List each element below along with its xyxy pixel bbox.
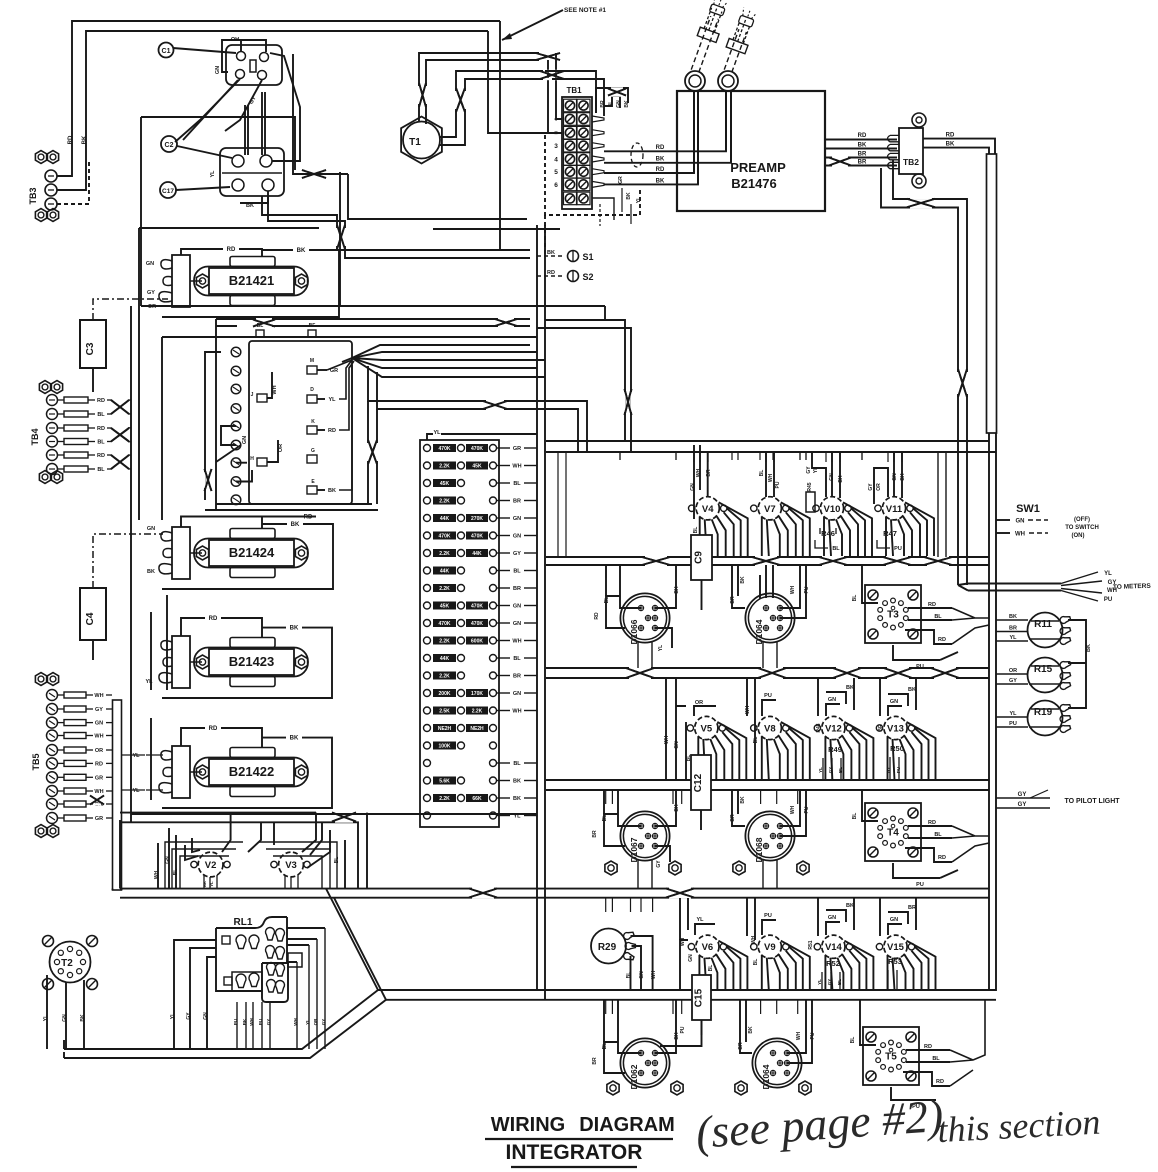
- wires V2 V3 hood: [120, 812, 316, 814]
- svg-text:RD: RD: [656, 145, 665, 151]
- svg-text:WH: WH: [512, 464, 521, 470]
- svg-text:B21476: B21476: [731, 176, 777, 191]
- resistor row y640: [424, 637, 431, 644]
- wire verticals bus3 to bus4: [605, 790, 607, 804]
- wires left of V4 row descend: [557, 452, 559, 557]
- svg-text:YL: YL: [696, 917, 704, 923]
- svg-text:5: 5: [554, 169, 558, 176]
- svg-text:R53: R53: [888, 957, 902, 966]
- svg-text:BL: BL: [852, 813, 858, 820]
- svg-text:B21421: B21421: [229, 273, 275, 288]
- svg-text:45K: 45K: [440, 481, 450, 487]
- svg-text:470K: 470K: [471, 446, 483, 452]
- svg-text:WH: WH: [696, 468, 702, 477]
- potentiometer R15: [1028, 658, 1063, 693]
- svg-text:OR: OR: [1009, 668, 1017, 674]
- svg-text:BK: BK: [674, 804, 680, 812]
- wire TB2 right RD: [923, 139, 995, 154]
- svg-text:BL: BL: [708, 965, 714, 972]
- svg-text:2.2K: 2.2K: [439, 639, 450, 645]
- svg-text:D: D: [310, 387, 314, 393]
- svg-text:BR: BR: [600, 100, 606, 108]
- svg-text:YL: YL: [132, 788, 140, 794]
- svg-text:WH: WH: [512, 709, 521, 715]
- svg-text:BL: BL: [604, 597, 610, 604]
- svg-text:RD: RD: [227, 247, 236, 253]
- svg-text:V6: V6: [702, 942, 714, 953]
- mount nuts row D1062: [607, 1081, 619, 1095]
- svg-text:PU: PU: [916, 882, 924, 888]
- tube D1064: [745, 593, 794, 642]
- wire verticals bus4 to V6 row: [605, 898, 607, 912]
- wire left hook: [205, 352, 221, 500]
- svg-text:44K: 44K: [440, 569, 450, 575]
- svg-text:3: 3: [554, 143, 558, 150]
- svg-text:BL: BL: [608, 101, 614, 108]
- wires V2 V3 drops: [204, 875, 217, 889]
- capacitor C9: [691, 535, 712, 580]
- svg-text:C1: C1: [162, 48, 171, 55]
- switch S2: [537, 275, 565, 277]
- wires bigtube bottoms row2: [638, 859, 777, 888]
- svg-text:GY: GY: [186, 1012, 192, 1020]
- tube V12: [822, 716, 845, 739]
- resistor R29: [591, 929, 626, 964]
- svg-text:RD: RD: [858, 133, 867, 139]
- svg-text:GY: GY: [266, 1019, 271, 1026]
- svg-text:YL: YL: [210, 170, 216, 178]
- wires V7 fan: [761, 517, 763, 556]
- wire mid-left verticals: [161, 337, 163, 520]
- tube section bus row5 bottom: [378, 989, 996, 991]
- resistor strip board: [420, 440, 499, 827]
- svg-text:PU: PU: [1104, 597, 1112, 603]
- svg-text:BL: BL: [693, 527, 699, 534]
- svg-text:OR: OR: [876, 483, 882, 491]
- tube V10: [820, 497, 843, 520]
- svg-text:WH: WH: [751, 935, 757, 944]
- wire twist on S pair: [495, 319, 517, 326]
- svg-text:GN: GN: [203, 1012, 209, 1020]
- svg-text:BL: BL: [932, 1056, 940, 1062]
- svg-text:OR: OR: [313, 1018, 318, 1026]
- bottom bus from T2: [64, 990, 378, 1049]
- svg-text:270K: 270K: [471, 516, 483, 522]
- capacitor C12: [691, 755, 711, 810]
- svg-text:V8: V8: [764, 724, 776, 735]
- svg-text:K: K: [311, 419, 315, 425]
- svg-text:T2: T2: [61, 958, 73, 969]
- wire S-pair to tube section: [545, 320, 625, 441]
- tube V4: [696, 497, 719, 520]
- tube V2: [198, 852, 223, 877]
- svg-text:BK: BK: [147, 569, 155, 575]
- svg-text:BL: BL: [513, 569, 521, 575]
- wires V11 fan: [885, 517, 887, 556]
- mount nuts row D1067: [605, 861, 617, 875]
- tube V6: [696, 935, 719, 958]
- svg-text:GN: GN: [688, 954, 694, 962]
- svg-text:BL: BL: [838, 767, 843, 773]
- resistor row y710: [424, 707, 431, 714]
- tube D1062: [620, 1038, 669, 1087]
- wires pins vertical: [244, 105, 246, 155]
- svg-text:BK: BK: [80, 1014, 86, 1022]
- svg-text:BR: BR: [1009, 626, 1017, 632]
- block top loop: [241, 40, 266, 52]
- svg-text:GN: GN: [215, 66, 221, 74]
- svg-text:GR: GR: [618, 176, 624, 184]
- svg-text:BK: BK: [242, 1018, 247, 1025]
- svg-text:V15: V15: [887, 942, 905, 953]
- svg-text:BR: BR: [858, 152, 867, 158]
- svg-text:BR: BR: [592, 1057, 598, 1065]
- svg-text:(OFF): (OFF): [1074, 517, 1090, 523]
- svg-text:470K: 470K: [471, 621, 483, 627]
- tube section bus row2: [546, 667, 989, 669]
- svg-text:C2: C2: [165, 142, 174, 149]
- svg-text:BL: BL: [759, 470, 765, 477]
- wire mid horizontals: [604, 306, 606, 320]
- svg-text:YL: YL: [170, 1013, 176, 1019]
- svg-text:GY: GY: [1009, 678, 1017, 684]
- svg-text:=: =: [554, 131, 558, 137]
- svg-text:BK: BK: [740, 796, 746, 804]
- svg-text:BR: BR: [706, 469, 712, 477]
- svg-text:RD: RD: [209, 726, 218, 732]
- tube section frame top pair: [546, 440, 989, 442]
- svg-text:2.5K: 2.5K: [439, 709, 450, 715]
- wire C1 to block: [173, 48, 236, 53]
- svg-text:BK: BK: [297, 248, 306, 254]
- svg-text:GN: GN: [829, 473, 835, 481]
- svg-text:YL: YL: [305, 1019, 310, 1025]
- svg-text:BR: BR: [730, 814, 736, 822]
- svg-text:NE2H: NE2H: [438, 726, 452, 732]
- tube D1064: [752, 1038, 801, 1087]
- tube V15: [884, 935, 907, 958]
- svg-text:BK: BK: [900, 473, 906, 481]
- wires V4 fan: [699, 517, 701, 556]
- svg-text:BF: BF: [309, 323, 316, 329]
- wire R chain BK: [1068, 620, 1086, 708]
- svg-text:2.2K: 2.2K: [439, 499, 450, 505]
- svg-text:BK: BK: [946, 142, 955, 148]
- wires V10 fan: [823, 517, 825, 556]
- tube D1062 wires: [604, 1000, 641, 1053]
- svg-text:OR: OR: [278, 444, 284, 452]
- svg-text:BL: BL: [97, 412, 105, 418]
- svg-text:BK: BK: [547, 250, 555, 256]
- connector TB2: [899, 128, 923, 174]
- svg-text:RD: RD: [936, 1079, 944, 1085]
- wire TB1-5 RD to plug: [604, 92, 694, 173]
- wires V9 fan: [761, 955, 763, 990]
- svg-text:BR: BR: [513, 499, 521, 505]
- svg-text:WH: WH: [154, 870, 160, 879]
- svg-text:GY: GY: [321, 1019, 326, 1026]
- svg-text:GR: GR: [513, 446, 521, 452]
- tube section bus row1: [546, 556, 989, 558]
- svg-text:BL: BL: [257, 323, 264, 329]
- svg-text:BK: BK: [1009, 614, 1017, 620]
- resistor row y518: [424, 515, 431, 522]
- diagonal bus left: [326, 889, 378, 990]
- svg-text:470K: 470K: [439, 621, 451, 627]
- svg-text:GY: GY: [868, 483, 874, 491]
- fan node right of board: [352, 345, 530, 358]
- svg-text:RD: RD: [594, 612, 600, 620]
- resistor row y763: [424, 760, 431, 767]
- svg-text:RD: RD: [209, 616, 218, 622]
- svg-text:C12: C12: [693, 773, 704, 792]
- small squares with labels: [256, 330, 264, 337]
- svg-text:GY: GY: [1018, 792, 1027, 798]
- box around T1 area: [293, 54, 348, 174]
- svg-text:V4: V4: [702, 504, 714, 515]
- resistor row y605: [424, 602, 431, 609]
- svg-text:BL: BL: [837, 979, 842, 985]
- svg-text:C4: C4: [85, 612, 96, 625]
- resistor row y745: [424, 742, 431, 749]
- svg-text:WH: WH: [664, 735, 670, 744]
- wire top right drop: [499, 21, 501, 250]
- tube D1067: [620, 811, 669, 860]
- svg-text:TB2: TB2: [903, 157, 919, 167]
- svg-text:V7: V7: [764, 504, 776, 515]
- svg-text:BL: BL: [753, 959, 759, 966]
- svg-text:GR: GR: [95, 816, 103, 822]
- svg-text:RD: RD: [97, 426, 105, 432]
- dashed outline TB1: [545, 135, 640, 215]
- svg-text:D1064: D1064: [761, 1064, 771, 1089]
- svg-text:66K: 66K: [472, 796, 482, 802]
- svg-text:S1: S1: [582, 252, 593, 262]
- tube V5: [695, 716, 718, 739]
- wire PU under V11: [877, 540, 890, 548]
- tube D1067 wires: [604, 790, 641, 826]
- svg-text:600K: 600K: [471, 639, 483, 645]
- tube D1064b wires: [740, 1000, 752, 1053]
- phone plug P2: [718, 71, 738, 91]
- wires to pilot light: [996, 797, 1050, 799]
- svg-text:GN: GN: [828, 697, 836, 703]
- wire pair T1 left: [419, 53, 548, 122]
- wires V12 labels: [826, 704, 840, 716]
- capacitor C2: [161, 136, 177, 152]
- svg-text:OR: OR: [95, 748, 103, 754]
- tube V11: [882, 497, 905, 520]
- wire BL under V10: [815, 540, 828, 548]
- svg-text:WH: WH: [94, 734, 103, 740]
- svg-text:BK: BK: [908, 687, 916, 693]
- see note arrow: [502, 10, 563, 40]
- svg-text:R48: R48: [816, 723, 822, 732]
- resistor row y693: [424, 690, 431, 697]
- terminal block TB5: [35, 673, 46, 686]
- transformer B21424: [172, 527, 190, 579]
- resistor row y535: [424, 532, 431, 539]
- svg-text:BK: BK: [858, 143, 867, 149]
- svg-text:470K: 470K: [439, 534, 451, 540]
- svg-text:V2: V2: [205, 860, 217, 871]
- svg-text:GY: GY: [828, 767, 833, 774]
- svg-text:S2: S2: [582, 272, 593, 282]
- capacitor C1: [159, 43, 174, 58]
- svg-text:BK: BK: [846, 685, 854, 691]
- wires V12 fan: [824, 737, 826, 781]
- svg-text:WH: WH: [249, 1018, 254, 1026]
- svg-text:BL: BL: [97, 440, 105, 446]
- svg-text:TO PILOT LIGHT: TO PILOT LIGHT: [1064, 798, 1120, 805]
- svg-text:V5: V5: [700, 724, 712, 735]
- svg-text:D1064: D1064: [754, 619, 764, 644]
- svg-text:YL: YL: [145, 679, 153, 685]
- svg-text:4: 4: [554, 157, 558, 164]
- svg-text:D1062: D1062: [629, 1064, 639, 1089]
- svg-text:GN: GN: [890, 917, 898, 923]
- cable to meters: [968, 583, 1061, 585]
- capacitor C15: [692, 975, 711, 1020]
- svg-text:OR: OR: [695, 700, 703, 706]
- tube V3: [279, 852, 304, 877]
- svg-text:RD: RD: [938, 855, 946, 861]
- svg-text:R51: R51: [808, 940, 814, 949]
- relay RL1 inner boxes: [232, 972, 262, 991]
- svg-text:YL: YL: [813, 467, 819, 473]
- resistor row y570: [424, 567, 431, 574]
- svg-text:WIRING: WIRING: [491, 1114, 565, 1136]
- svg-text:WH: WH: [94, 693, 103, 699]
- svg-text:RD: RD: [68, 135, 74, 144]
- svg-text:SEE NOTE #1: SEE NOTE #1: [564, 7, 606, 14]
- wires V11 labels: [874, 468, 888, 504]
- wire BK bottom: [240, 191, 268, 203]
- svg-text:H: H: [250, 456, 254, 462]
- wires V8 fan: [761, 737, 763, 781]
- svg-text:D1066: D1066: [629, 619, 639, 644]
- svg-text:GN: GN: [616, 100, 622, 108]
- svg-text:BL: BL: [753, 737, 759, 744]
- svg-text:G: G: [311, 448, 315, 454]
- wires inner squares: [317, 369, 327, 371]
- wires V2 nest: [175, 835, 177, 888]
- svg-text:YL: YL: [636, 197, 642, 203]
- svg-text:BL: BL: [934, 832, 942, 838]
- transformer B21422: [172, 746, 190, 798]
- svg-text:TB1: TB1: [566, 86, 582, 95]
- svg-text:RD: RD: [97, 453, 105, 459]
- svg-text:PU: PU: [896, 767, 901, 773]
- svg-text:J: J: [251, 392, 254, 398]
- svg-text:BR: BR: [878, 724, 884, 732]
- svg-text:BR: BR: [513, 586, 521, 592]
- svg-text:GN: GN: [147, 526, 155, 532]
- terminal board mid: [216, 318, 256, 320]
- svg-text:GN: GN: [890, 699, 898, 705]
- resistor row y780: [424, 777, 431, 784]
- svg-text:470K: 470K: [439, 446, 451, 452]
- inner board box: [249, 341, 352, 504]
- svg-text:PU: PU: [894, 546, 902, 552]
- svg-text:BK: BK: [202, 881, 207, 887]
- tube V9: [758, 935, 781, 958]
- svg-text:TO METERS: TO METERS: [1113, 583, 1152, 591]
- svg-text:100K: 100K: [439, 744, 451, 750]
- transformer B21423: [172, 636, 190, 688]
- svg-text:YL: YL: [1009, 711, 1017, 717]
- svg-text:BK: BK: [838, 475, 844, 483]
- wire right bus pair: [988, 433, 990, 991]
- relay RL1 upper contacts: [222, 936, 230, 944]
- wire C2 to block: [177, 146, 232, 158]
- wires section verticals row1: [605, 565, 607, 578]
- svg-text:GY: GY: [886, 767, 891, 774]
- cable TB5 vertical: [113, 700, 122, 890]
- svg-text:T4: T4: [887, 828, 899, 839]
- svg-text:BK: BK: [674, 586, 680, 594]
- capacitor C3: [80, 320, 106, 368]
- socket T3 wires: [908, 607, 952, 609]
- tube V14: [822, 935, 845, 958]
- svg-text:WH: WH: [293, 1018, 298, 1026]
- terminal circles column: [231, 347, 241, 357]
- svg-text:BK: BK: [290, 736, 299, 742]
- svg-text:INTEGRATOR: INTEGRATOR: [506, 1141, 643, 1164]
- resistor row y448: [424, 445, 431, 452]
- wires RL1 down: [236, 1002, 238, 1049]
- svg-text:RD: RD: [328, 428, 336, 434]
- svg-text:GN: GN: [674, 741, 680, 749]
- svg-text:WH: WH: [651, 970, 657, 979]
- wire nested loops over V2V3: [165, 842, 243, 888]
- capacitor C17: [160, 182, 176, 198]
- svg-text:TB5: TB5: [31, 753, 41, 770]
- svg-text:T5: T5: [885, 1052, 897, 1063]
- svg-text:YL: YL: [328, 397, 336, 403]
- svg-text:C9: C9: [694, 551, 705, 564]
- wires RL1 right drops: [296, 962, 298, 1049]
- svg-text:BK: BK: [656, 157, 665, 163]
- tube D1066: [620, 593, 669, 642]
- svg-text:GR: GR: [95, 775, 103, 781]
- svg-text:BL: BL: [850, 1037, 856, 1044]
- svg-text:2.2K: 2.2K: [439, 586, 450, 592]
- svg-text:V10: V10: [824, 504, 841, 515]
- svg-text:GY: GY: [513, 551, 521, 557]
- svg-text:GN: GN: [513, 621, 521, 627]
- svg-text:GN: GN: [639, 971, 645, 979]
- resistor row y483: [424, 480, 431, 487]
- wire TB3-3 dashed: [57, 160, 89, 204]
- wires V15 fan: [887, 955, 889, 990]
- svg-text:45K: 45K: [472, 464, 482, 470]
- wires V4row tube tops: [693, 452, 695, 462]
- svg-text:PU: PU: [764, 693, 772, 699]
- svg-text:B21422: B21422: [229, 764, 275, 779]
- transformer B21421: [172, 255, 190, 307]
- phone plug P1: [685, 71, 705, 91]
- socket T4: [865, 803, 921, 861]
- connector block lower: [220, 148, 284, 196]
- svg-text:470K: 470K: [471, 604, 483, 610]
- svg-text:BL: BL: [602, 815, 608, 822]
- svg-text:BK: BK: [82, 135, 88, 144]
- resistor row y623: [424, 620, 431, 627]
- svg-text:DIAGRAM: DIAGRAM: [579, 1114, 675, 1136]
- svg-text:BR: BR: [858, 160, 867, 166]
- wires V10 labels: [812, 452, 826, 497]
